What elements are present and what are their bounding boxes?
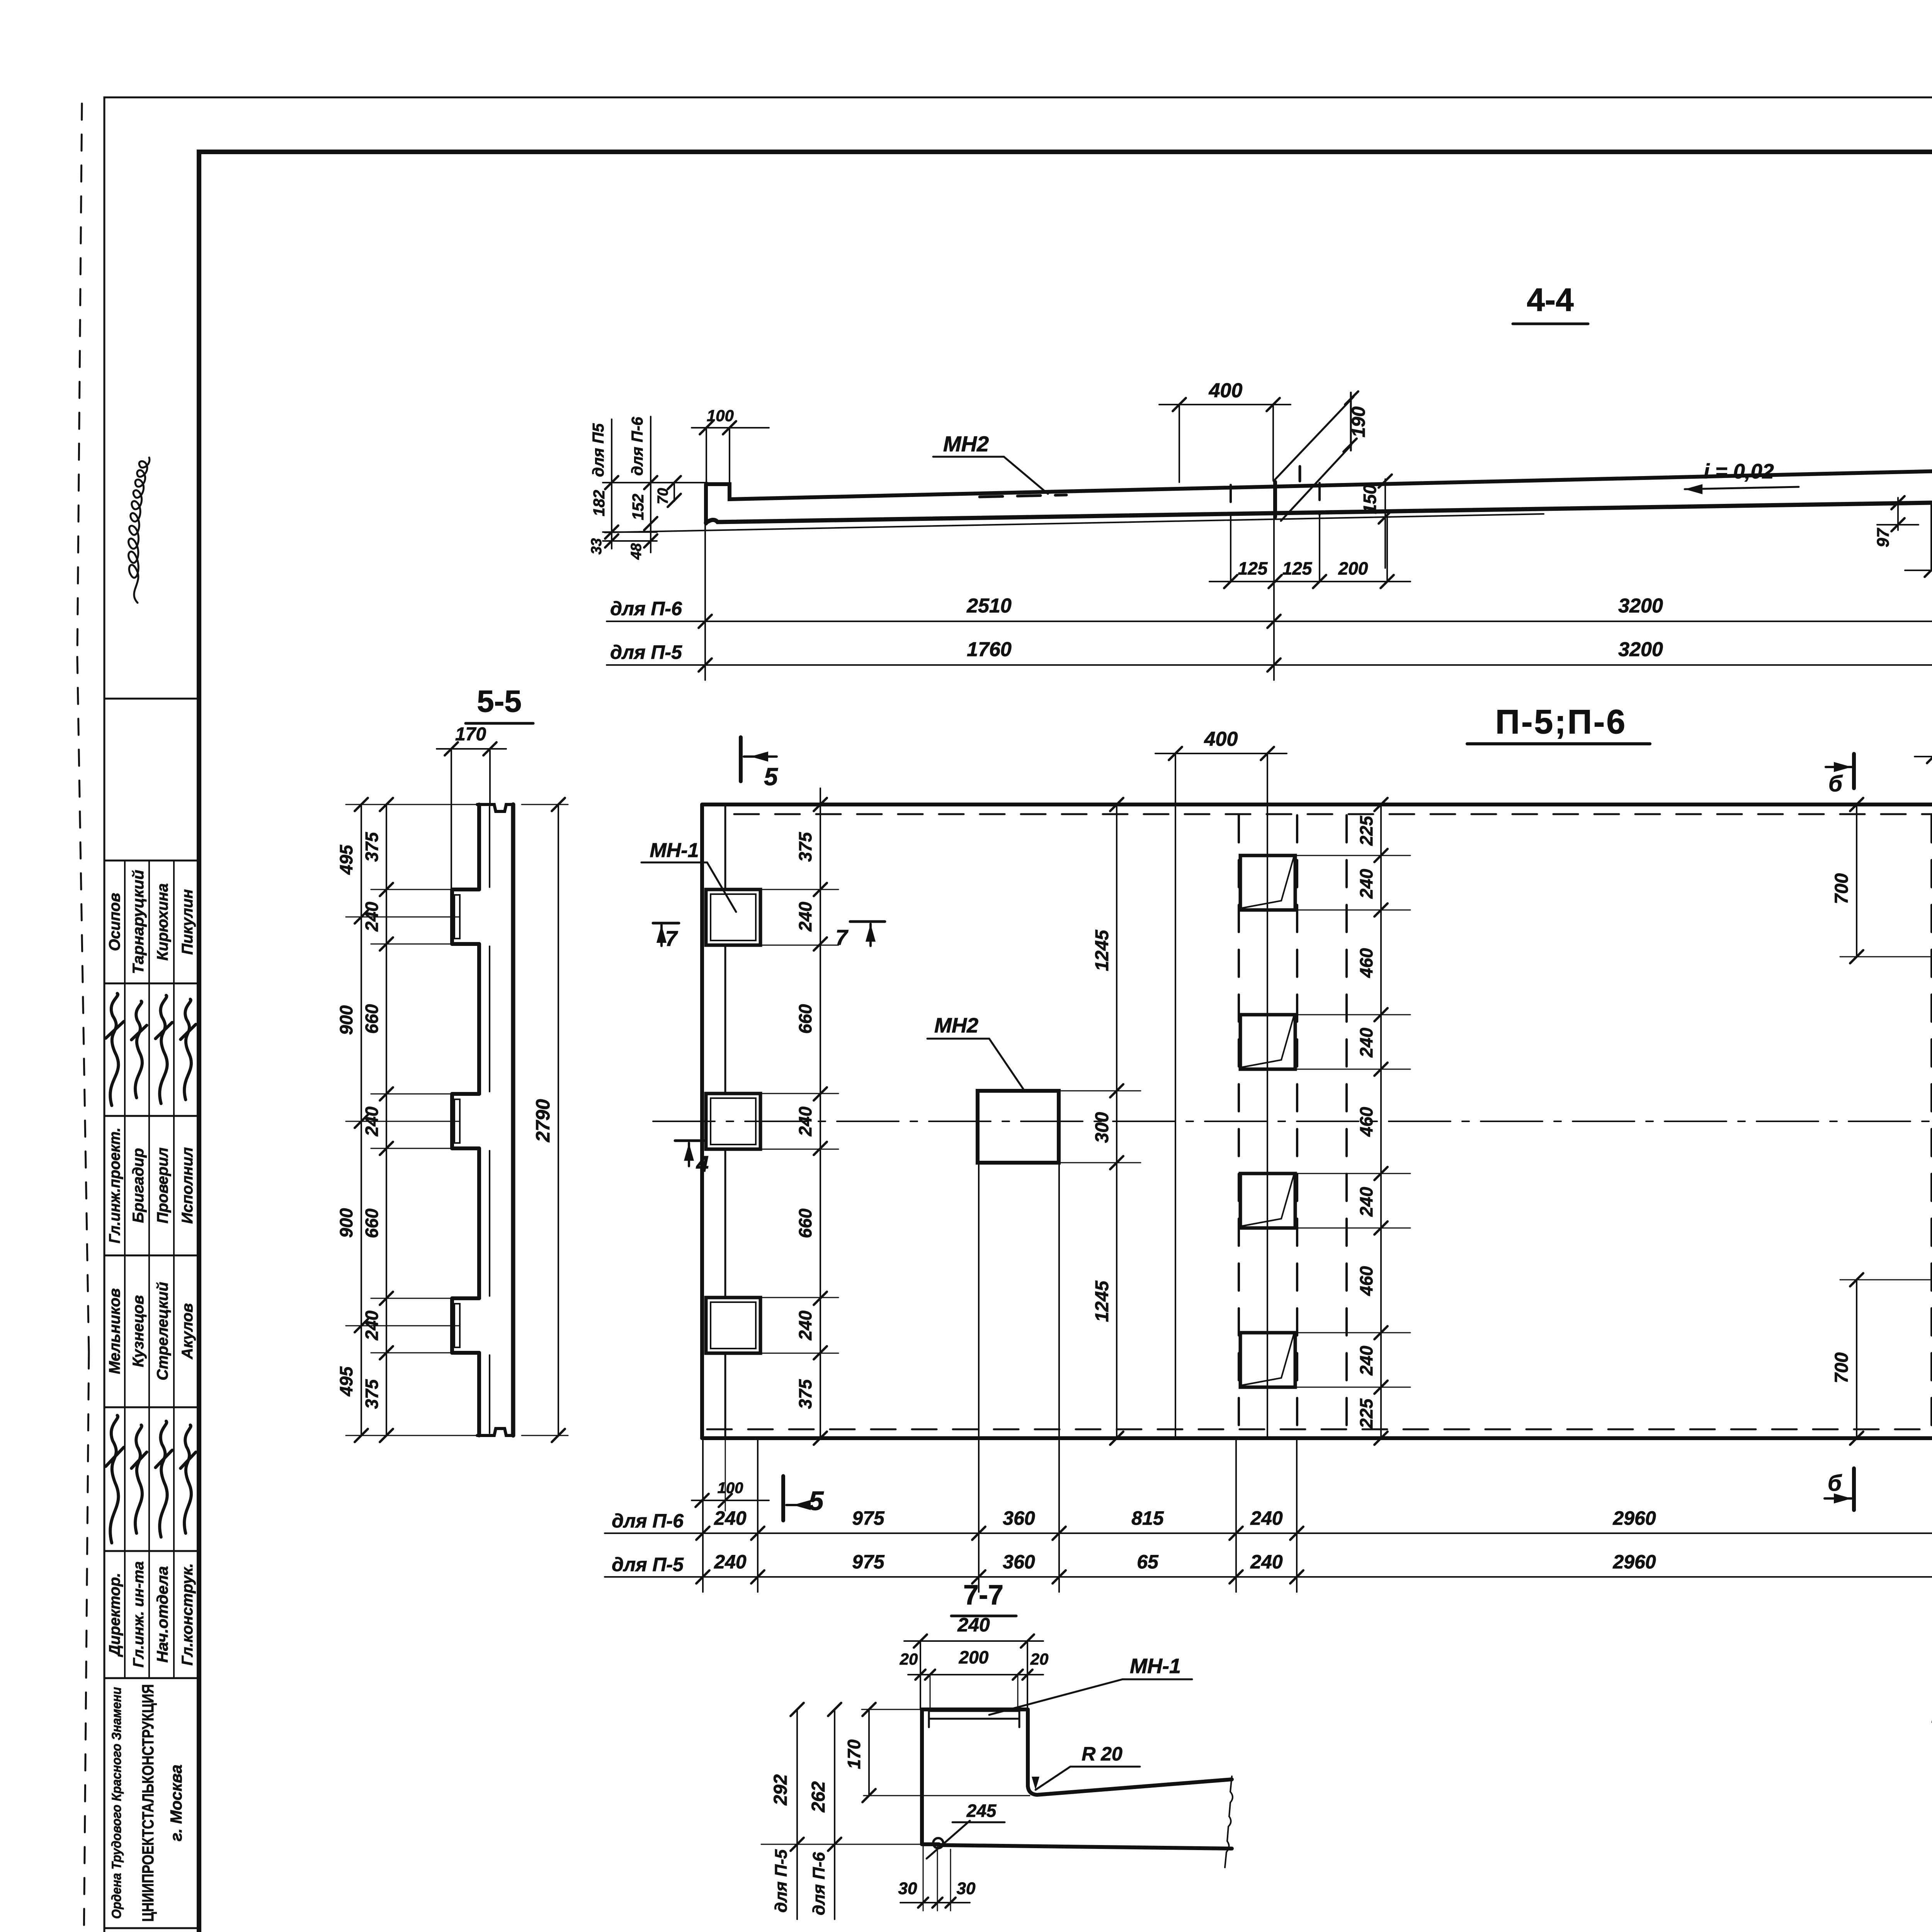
svg-text:б: б bbox=[1828, 1471, 1842, 1496]
plan МН-1 box 2 bbox=[706, 1094, 760, 1149]
svg-text:для П-6: для П-6 bbox=[612, 1510, 684, 1532]
svg-text:460: 460 bbox=[1356, 1107, 1376, 1137]
plan МН2 plate bbox=[978, 1091, 1059, 1163]
svg-text:7-7: 7-7 bbox=[963, 1580, 1003, 1611]
svg-text:R 20: R 20 bbox=[1082, 1743, 1122, 1765]
plan centre line bbox=[653, 1121, 1932, 1122]
svg-text:900: 900 bbox=[336, 1208, 356, 1238]
svg-text:100: 100 bbox=[718, 1480, 743, 1497]
4-4 dim 400 (MH2 plate) bbox=[1159, 379, 1291, 482]
svg-text:30: 30 bbox=[957, 1879, 976, 1898]
plan МН2 extension lines to dim rows bbox=[979, 1163, 1059, 1592]
svg-text:660: 660 bbox=[362, 1208, 382, 1238]
stamp roles: Гл.инж.проект. Бригадир Проверил Исполнил bbox=[106, 1128, 196, 1243]
5-5 outer dim chain 495 900 900 495 bbox=[336, 798, 479, 1442]
svg-text:975: 975 bbox=[852, 1507, 885, 1529]
section 7-7 title bbox=[951, 1580, 1016, 1616]
section mark Б top bbox=[1826, 754, 1854, 796]
svg-text:240: 240 bbox=[714, 1551, 747, 1573]
svg-text:240: 240 bbox=[795, 1106, 815, 1136]
svg-text:245: 245 bbox=[966, 1801, 997, 1821]
svg-text:240: 240 bbox=[795, 1310, 815, 1340]
svg-text:240: 240 bbox=[795, 901, 815, 932]
svg-text:70: 70 bbox=[655, 488, 671, 504]
svg-text:30: 30 bbox=[898, 1879, 917, 1898]
4-4 dim 150 left joint bbox=[1360, 474, 1392, 568]
7-7 bottom tick line bbox=[761, 1844, 924, 1845]
svg-text:для П-5: для П-5 bbox=[610, 641, 682, 663]
svg-text:360: 360 bbox=[1003, 1551, 1035, 1573]
plan label МН2 with leader bbox=[927, 1014, 1023, 1089]
torn left sheet edge bbox=[77, 104, 89, 1932]
svg-text:Гл.инж.проект.: Гл.инж.проект. bbox=[106, 1128, 123, 1243]
plan dim 100 bottom left bbox=[692, 1438, 769, 1511]
svg-text:700: 700 bbox=[1832, 1352, 1852, 1383]
stamp signatures group 2 bbox=[106, 1415, 196, 1543]
7-7 deck break line bbox=[1225, 1776, 1233, 1867]
svg-text:225: 225 bbox=[1356, 815, 1376, 846]
4-4 slab top surface bbox=[706, 462, 1932, 499]
7-7 dims 20 200 20 bbox=[900, 1641, 1049, 1711]
4-4 slab left end edge bbox=[704, 484, 708, 524]
4-4 dim 190 diagonal bbox=[1274, 391, 1369, 521]
svg-text:Осипов: Осипов bbox=[106, 893, 123, 951]
svg-text:190: 190 bbox=[1349, 406, 1369, 437]
svg-text:1245: 1245 bbox=[1092, 1280, 1112, 1322]
section mark 4 left bbox=[675, 1141, 709, 1177]
stamp column grid bbox=[104, 699, 199, 1928]
5-5 inner dim chain 375 240 660 bbox=[362, 798, 479, 1442]
5-5 dim 170 bbox=[437, 724, 506, 896]
note 2 bbox=[1932, 1703, 1932, 1727]
plan МН-1 box 3 bbox=[706, 1298, 760, 1353]
svg-text:г. Москва: г. Москва bbox=[167, 1765, 185, 1842]
7-7 dim 292 для П-5 bbox=[770, 1703, 804, 1919]
svg-text:1245: 1245 bbox=[1092, 929, 1112, 971]
svg-text:182: 182 bbox=[590, 490, 608, 517]
svg-text:97: 97 bbox=[1874, 527, 1893, 547]
stamp names: Мельников Кузнецов Стрелецкий Акулов bbox=[106, 1282, 196, 1381]
svg-text:170: 170 bbox=[844, 1739, 864, 1769]
4-4 lower reference line for П-5 bbox=[605, 514, 1544, 532]
svg-text:495: 495 bbox=[336, 844, 356, 875]
stamp signatures group 1 bbox=[106, 993, 196, 1105]
svg-text:100: 100 bbox=[707, 406, 734, 425]
stamp organization name bbox=[109, 1684, 185, 1922]
svg-text:2510: 2510 bbox=[966, 595, 1012, 617]
plan label МН-1 with leader bbox=[641, 839, 736, 912]
svg-text:125: 125 bbox=[1238, 558, 1268, 578]
section mark 5 top bbox=[741, 737, 778, 791]
svg-text:360: 360 bbox=[1003, 1507, 1035, 1529]
svg-text:3200: 3200 bbox=[1618, 595, 1663, 617]
plan shear key holes left column bbox=[1240, 855, 1295, 1387]
svg-text:Пикулин: Пикулин bbox=[179, 889, 196, 955]
7-7 dim 170 bbox=[844, 1703, 1030, 1802]
svg-text:Гл.конструк.: Гл.конструк. bbox=[179, 1563, 196, 1666]
svg-text:2790: 2790 bbox=[532, 1099, 554, 1142]
svg-text:ЦНИИПРОЕКТСТАЛЬКОНСТРУКЦИЯ: ЦНИИПРОЕКТСТАЛЬКОНСТРУКЦИЯ bbox=[139, 1684, 157, 1922]
7-7 dim 240 bbox=[904, 1614, 1043, 1648]
svg-text:Проверил: Проверил bbox=[154, 1147, 171, 1223]
svg-text:200: 200 bbox=[1338, 558, 1368, 578]
svg-text:660: 660 bbox=[795, 1004, 815, 1034]
7-7 dim 262 для П-6 bbox=[808, 1703, 841, 1919]
plan left dim chain 375 240 660 240 660 240 375 bbox=[760, 788, 838, 1445]
svg-text:Бригадир: Бригадир bbox=[130, 1148, 147, 1223]
svg-text:Мельников: Мельников bbox=[106, 1288, 123, 1374]
plan title П-5;П-6 bbox=[1467, 702, 1650, 744]
svg-text:б: б bbox=[1828, 771, 1843, 796]
svg-text:48: 48 bbox=[628, 543, 645, 560]
4-4 dim 97 bbox=[1874, 496, 1918, 547]
4-4 left height dims 182 152 33 48 70 для П5 П-6 bbox=[588, 417, 707, 560]
plan left flange line bbox=[724, 804, 726, 1438]
svg-text:для П-5: для П-5 bbox=[612, 1554, 684, 1575]
svg-text:375: 375 bbox=[795, 832, 815, 862]
7-7 rib body bbox=[922, 1709, 1232, 1849]
plan dim row extension lines bbox=[703, 1438, 1932, 1592]
svg-text:375: 375 bbox=[362, 1379, 382, 1409]
5-5 deck plate bbox=[477, 804, 513, 1435]
svg-text:400: 400 bbox=[1204, 728, 1238, 750]
svg-text:МН2: МН2 bbox=[943, 432, 989, 456]
stamp names: Осипов Тарнаруцкий Кирюхина Пикулин bbox=[106, 870, 196, 974]
svg-text:240: 240 bbox=[957, 1614, 990, 1636]
svg-text:375: 375 bbox=[795, 1379, 815, 1409]
svg-text:Нач.отдела: Нач.отдела bbox=[154, 1566, 171, 1663]
plan dim 1700 bbox=[1915, 730, 1932, 811]
handwritten margin note bbox=[129, 457, 150, 603]
plan dim row для П-6 bbox=[605, 1507, 1932, 1540]
svg-text:1760: 1760 bbox=[967, 638, 1012, 661]
svg-text:2960: 2960 bbox=[1612, 1551, 1656, 1573]
svg-text:660: 660 bbox=[362, 1004, 382, 1034]
4-4 dim 100 (left curb) bbox=[692, 406, 769, 498]
section mark 5 bottom bbox=[783, 1476, 824, 1520]
plan dim row для П-5 bbox=[605, 1551, 1932, 1583]
svg-text:4-4: 4-4 bbox=[1527, 282, 1574, 318]
svg-text:495: 495 bbox=[336, 1366, 356, 1396]
svg-text:660: 660 bbox=[795, 1208, 815, 1238]
svg-text:240: 240 bbox=[1356, 1345, 1376, 1376]
svg-text:для П-6: для П-6 bbox=[610, 598, 682, 619]
svg-text:4: 4 bbox=[696, 1151, 709, 1177]
svg-text:240: 240 bbox=[714, 1507, 747, 1529]
svg-text:3200: 3200 bbox=[1618, 638, 1663, 661]
7-7 label МН-1 with leader bbox=[989, 1655, 1192, 1715]
svg-text:20: 20 bbox=[900, 1650, 918, 1668]
4-4 dimension row для П-5 bbox=[607, 638, 1932, 672]
plan hidden edge bottom bbox=[707, 1429, 1932, 1430]
svg-text:65: 65 bbox=[1137, 1551, 1159, 1573]
7-7 dims 30 30 bottom bbox=[898, 1846, 976, 1911]
svg-text:i = 0,02: i = 0,02 bbox=[1704, 460, 1774, 483]
svg-text:для П5: для П5 bbox=[589, 423, 607, 477]
svg-text:400: 400 bbox=[1209, 379, 1243, 402]
svg-text:240: 240 bbox=[1356, 1027, 1376, 1058]
7-7 embedded channel МН-1 bbox=[929, 1711, 1019, 1727]
plan dim 700 lower bbox=[1832, 1273, 1932, 1445]
svg-text:900: 900 bbox=[336, 1005, 356, 1035]
4-4 dimension row для П-6 bbox=[607, 595, 1932, 628]
7-7 label 245 chamfer with leader bbox=[927, 1801, 1005, 1859]
4-4 embedded plate MH2 hidden edge bbox=[980, 495, 1066, 497]
svg-text:240: 240 bbox=[1250, 1551, 1283, 1573]
svg-text:П-5;П-6: П-5;П-6 bbox=[1495, 702, 1627, 741]
plan hidden edge top bbox=[734, 813, 1932, 815]
section mark Б bottom bbox=[1825, 1468, 1854, 1510]
svg-text:700: 700 bbox=[1832, 873, 1852, 904]
4-4 dim row extension lines bbox=[705, 496, 1932, 680]
4-4 dims 125 125 200 left joint bbox=[1209, 515, 1410, 588]
svg-text:Исполнил: Исполнил bbox=[179, 1147, 196, 1224]
svg-text:для П-6: для П-6 bbox=[810, 1852, 828, 1915]
svg-text:МН-1: МН-1 bbox=[1130, 1655, 1181, 1678]
svg-text:262: 262 bbox=[808, 1781, 829, 1813]
svg-text:375: 375 bbox=[362, 832, 382, 862]
plan joint hidden lines left cluster bbox=[1239, 815, 1347, 1430]
svg-text:Тарнаруцкий: Тарнаруцкий bbox=[130, 870, 147, 974]
plan dim 400 joint bbox=[1155, 728, 1287, 760]
svg-text:225: 225 bbox=[1356, 1398, 1376, 1429]
svg-text:460: 460 bbox=[1356, 1266, 1376, 1296]
svg-text:975: 975 bbox=[852, 1551, 885, 1573]
plan outline bbox=[702, 804, 1932, 1438]
svg-text:200: 200 bbox=[959, 1647, 989, 1667]
4-4 bottom recess at joint bbox=[1931, 497, 1932, 526]
7-7 label R20 with leader bbox=[1032, 1743, 1140, 1790]
svg-text:125: 125 bbox=[1282, 558, 1313, 578]
section 4-4 title bbox=[1513, 282, 1588, 324]
svg-text:170: 170 bbox=[455, 724, 486, 745]
svg-text:5: 5 bbox=[764, 763, 778, 791]
svg-text:292: 292 bbox=[770, 1774, 791, 1806]
4-4 label MH2 with leader bbox=[933, 432, 1048, 494]
section 5-5 title bbox=[466, 684, 533, 723]
svg-text:152: 152 bbox=[629, 494, 647, 520]
svg-text:5: 5 bbox=[809, 1486, 824, 1516]
svg-text:Директор.: Директор. bbox=[106, 1573, 123, 1657]
4-4 top stub left joint bbox=[1299, 466, 1301, 481]
svg-text:Ордена Трудового Красного Знам: Ордена Трудового Красного Знамени bbox=[109, 1687, 124, 1919]
svg-text:Гл.инж. ин-та: Гл.инж. ин-та bbox=[131, 1561, 147, 1668]
svg-text:150: 150 bbox=[1360, 484, 1380, 514]
section mark 7 right bbox=[835, 922, 885, 949]
svg-text:МН-1: МН-1 bbox=[650, 839, 699, 862]
svg-text:Акулов: Акулов bbox=[179, 1303, 196, 1360]
5-5 ribbed left profile bbox=[452, 804, 479, 1435]
svg-text:460: 460 bbox=[1356, 948, 1376, 978]
svg-text:для П-6: для П-6 bbox=[628, 417, 646, 476]
svg-text:для П-5: для П-5 bbox=[772, 1849, 791, 1913]
svg-text:5-5: 5-5 bbox=[477, 684, 522, 718]
4-4 left joint hidden edges bbox=[1231, 483, 1320, 515]
plan МН-1 box 1 bbox=[706, 889, 760, 945]
svg-text:Кирюхина: Кирюхина bbox=[154, 883, 171, 961]
svg-text:2960: 2960 bbox=[1612, 1507, 1656, 1529]
svg-text:240: 240 bbox=[1356, 1187, 1376, 1217]
svg-text:20: 20 bbox=[1030, 1650, 1049, 1668]
svg-text:240: 240 bbox=[1356, 869, 1376, 899]
5-5 overall dim 2790 bbox=[522, 798, 568, 1442]
stamp roles: Директор Гл.инж.ин-та Нач.отдела Гл.конструк. bbox=[106, 1561, 196, 1668]
4-4 dims 200 125 125 200 right joint bbox=[1905, 505, 1932, 612]
svg-text:Стрелецкий: Стрелецкий bbox=[154, 1282, 171, 1381]
svg-text:Кузнецов: Кузнецов bbox=[130, 1295, 147, 1367]
plan dim chain 1245 300 1245 bbox=[1059, 798, 1141, 1445]
section mark 7 left bbox=[653, 923, 679, 951]
svg-text:240: 240 bbox=[1250, 1507, 1283, 1529]
svg-text:7: 7 bbox=[835, 925, 849, 949]
4-4 slope label i=0,02 bbox=[1685, 460, 1799, 494]
4-4 left joint centre line bbox=[1273, 482, 1277, 517]
svg-text:33: 33 bbox=[588, 538, 605, 554]
plan right dim chain 225 240 460 bbox=[1295, 798, 1410, 1445]
5-5 inner wall lines bbox=[454, 807, 490, 1433]
plan joint hidden lines right cluster bbox=[1932, 815, 1932, 1430]
plan dim 700 upper bbox=[1832, 798, 1932, 963]
plan joint edge lines bbox=[1175, 753, 1267, 1438]
svg-text:815: 815 bbox=[1131, 1507, 1164, 1529]
svg-text:7: 7 bbox=[665, 926, 678, 951]
svg-text:МН2: МН2 bbox=[934, 1014, 978, 1037]
4-4 slab bottom line bbox=[706, 503, 1931, 523]
svg-text:300: 300 bbox=[1092, 1112, 1112, 1143]
